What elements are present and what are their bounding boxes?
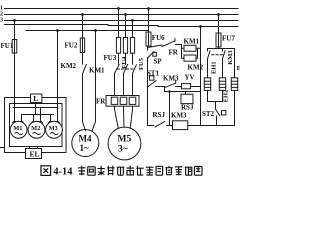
fuse FU4	[123, 38, 127, 54]
terminal arcs M2	[32, 121, 43, 122]
FR element 2	[120, 97, 127, 104]
caption fake hanzi	[78, 166, 202, 175]
svg-text:3~: 3~	[118, 145, 128, 155]
svg-text:M2: M2	[31, 125, 40, 132]
wire to YV	[176, 86, 182, 88]
svg-text:FU2: FU2	[65, 42, 78, 50]
svg-text:RSJ: RSJ	[181, 103, 194, 111]
svg-text:FU4: FU4	[121, 56, 128, 69]
wire sub branch	[165, 87, 201, 92]
svg-text:KM1: KM1	[89, 67, 105, 75]
contact KM3 NC	[165, 81, 176, 88]
control right rail	[200, 27, 202, 126]
contactor KM1 pole b	[124, 65, 128, 74]
svg-text:KM2: KM2	[188, 63, 204, 71]
KM1 linkage	[117, 68, 133, 70]
contact KM3 pole a	[208, 49, 211, 59]
thermostat ST2	[215, 109, 219, 116]
svg-text:KM2: KM2	[61, 62, 77, 70]
wire rail1	[13, 107, 58, 109]
node line5-M4 drop	[94, 29, 97, 32]
bus line L1	[5, 8, 239, 10]
svg-text:KM3: KM3	[227, 50, 234, 65]
svg-text:4-14: 4-14	[53, 166, 72, 177]
contactor contact KM2	[83, 64, 87, 73]
svg-text:M4: M4	[79, 134, 92, 144]
svg-text:SP: SP	[154, 57, 163, 65]
fuse FU5	[130, 38, 134, 54]
node L2-FU4 drop	[124, 13, 127, 16]
wire fuse to KM1 contacts	[119, 53, 133, 64]
wire ground lead	[0, 147, 5, 149]
wire lamp N drop	[57, 31, 59, 108]
control left rail	[147, 46, 149, 126]
wire rung1	[148, 45, 163, 48]
svg-text:L: L	[33, 94, 38, 103]
KM3 linkage	[212, 54, 223, 56]
svg-text:FU5: FU5	[138, 57, 145, 70]
svg-text:1~: 1~	[80, 143, 90, 153]
svg-text:KM3: KM3	[171, 112, 187, 120]
heater EH1	[204, 78, 210, 91]
svg-text:E: E	[237, 65, 240, 72]
wire L drop	[35, 103, 37, 115]
wire KM1 to FR	[115, 73, 133, 95]
wire FU5 drop	[132, 21, 134, 38]
heater EH3	[231, 78, 237, 91]
node L2-FU7 drop	[217, 13, 220, 16]
wire to bottom rail	[169, 92, 171, 126]
node N-control rail	[199, 25, 202, 28]
svg-text:3: 3	[0, 17, 3, 23]
svg-text:KM3: KM3	[163, 75, 179, 83]
wire RSJ stub	[185, 92, 187, 95]
wire YV to rail	[191, 86, 201, 88]
svg-text:FR: FR	[96, 97, 106, 105]
bus tap line 5	[26, 30, 149, 32]
FR element 3	[129, 97, 136, 104]
node line5-lamp drop	[56, 29, 59, 32]
bus line L2	[5, 14, 239, 16]
svg-text:FU3: FU3	[104, 54, 117, 62]
coil KM2	[184, 55, 196, 61]
display cabinet inner box	[10, 104, 63, 147]
motor M4	[72, 130, 99, 157]
svg-text:ST1: ST1	[147, 69, 160, 77]
node L1-FU6 drop	[147, 7, 150, 10]
svg-text:YV: YV	[185, 74, 195, 82]
caption figure number glyph tu	[41, 166, 51, 176]
svg-text:EH2: EH2	[223, 90, 230, 103]
node L3-FU5 drop	[131, 19, 134, 22]
wire contacts to heaters	[208, 49, 235, 78]
thermal relay FR box	[106, 96, 139, 107]
wire M4 neutral	[92, 31, 95, 131]
pressure switch SP	[148, 52, 155, 59]
lamp EL box	[26, 149, 42, 159]
bus line N	[5, 25, 239, 27]
wire EH3 return	[234, 90, 236, 125]
wire EL stubs	[30, 147, 38, 149]
svg-text:M5: M5	[118, 135, 132, 145]
motor M2	[28, 121, 45, 138]
terminal arcs M1	[13, 121, 24, 122]
node sub branch	[168, 90, 171, 93]
motor M5	[108, 127, 141, 160]
wire FU4 drop	[125, 15, 127, 38]
heater EH2	[219, 78, 225, 91]
wire rail2	[22, 114, 54, 116]
timer contact RSJ	[155, 122, 165, 127]
svg-text:EH1: EH1	[210, 61, 217, 74]
wire heater header	[208, 48, 235, 50]
relay contact FR NC	[162, 39, 182, 47]
node L1-FU3 drop	[117, 7, 120, 10]
svg-text:EL: EL	[30, 149, 40, 158]
svg-text:FU6: FU6	[152, 34, 165, 42]
FR element 1	[111, 97, 118, 104]
node L3-FU1 drop	[13, 19, 16, 22]
svg-text:RSJ: RSJ	[153, 111, 166, 119]
fuse FU6	[148, 9, 150, 47]
motor M3	[46, 121, 63, 138]
thermostat ST1	[150, 76, 154, 80]
fuse FU1	[12, 40, 17, 54]
svg-text:FU7: FU7	[222, 34, 235, 42]
svg-text:KM1: KM1	[184, 37, 200, 45]
node L2-FU2 drop	[81, 13, 84, 16]
wire FU2 drop	[82, 15, 84, 65]
fuse FU2	[80, 38, 84, 53]
timer coil RSJ	[181, 94, 193, 103]
ballast L box	[31, 94, 42, 103]
wire FU3 drop	[118, 9, 120, 38]
wire FU1 drop	[14, 21, 16, 122]
wire heater tie	[208, 90, 223, 108]
coil KM1	[184, 45, 196, 51]
contactor KM1 pole c	[133, 65, 137, 74]
valve coil YV	[182, 84, 191, 89]
display cabinet outer box	[5, 98, 67, 153]
coil KM3	[173, 121, 188, 130]
svg-text:M3: M3	[49, 125, 58, 132]
contactor KM1 pole a	[115, 65, 120, 74]
bottom rail	[148, 125, 235, 127]
wire rung3	[156, 86, 165, 88]
bus line L3	[5, 20, 239, 22]
fuse FU7	[218, 15, 220, 48]
svg-text:M1: M1	[13, 125, 22, 132]
motor M1	[10, 121, 27, 138]
fuse FU3	[116, 38, 120, 54]
wire coil branch	[182, 45, 201, 59]
svg-text:FU1: FU1	[1, 42, 14, 50]
contact KM3 pole b	[223, 49, 226, 59]
wire motor stubs	[22, 108, 58, 122]
svg-text:FR: FR	[169, 49, 179, 57]
wire KM2 to M4	[83, 74, 86, 131]
svg-text:ST2: ST2	[202, 110, 215, 118]
wire FR to M5	[115, 106, 133, 128]
terminal arcs M3	[49, 121, 60, 122]
